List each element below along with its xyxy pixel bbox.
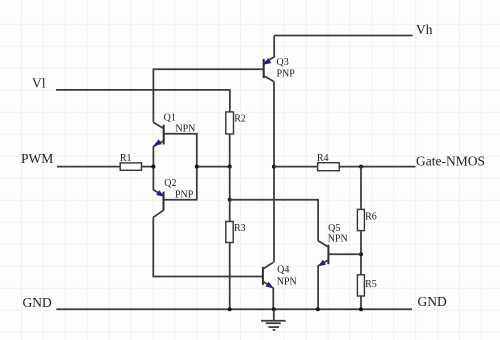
wire base junction to R2 node: [197, 166, 230, 168]
svg-text:PNP: PNP: [175, 190, 194, 201]
wire Q1 base to Q2 base: [164, 134, 197, 200]
wire R3 to ground rail: [229, 243, 231, 310]
wire Q3 collector to Q4 collector: [273, 82, 275, 263]
svg-text:Vh: Vh: [416, 22, 433, 37]
svg-text:Q5: Q5: [328, 223, 340, 234]
wire PWM input: [57, 166, 120, 168]
svg-text:Vl: Vl: [32, 76, 46, 91]
svg-text:R1: R1: [120, 153, 132, 164]
wire R1 to emitter junction: [142, 166, 154, 168]
wire R3 node to Q5 collector: [230, 200, 318, 241]
wire R3 top lead: [229, 200, 231, 222]
resistor R1: [120, 163, 141, 170]
resistor R5: [357, 275, 364, 296]
junction R2 bottom: [228, 165, 232, 169]
svg-text:GND: GND: [23, 295, 52, 310]
svg-text:Q1: Q1: [164, 112, 176, 123]
junction output node: [272, 165, 276, 169]
transistor Q2: [153, 167, 164, 218]
svg-text:R3: R3: [234, 223, 246, 234]
svg-text:NPN: NPN: [328, 234, 348, 245]
svg-text:Q4: Q4: [277, 264, 289, 275]
resistor R6: [357, 209, 364, 230]
ground symbol: [261, 309, 286, 330]
wire Vh rail: [274, 35, 412, 37]
svg-text:Gate-NMOS: Gate-NMOS: [416, 153, 485, 168]
svg-text:R5: R5: [365, 279, 377, 290]
wire R6 top lead: [360, 167, 362, 210]
transistor Q4: [263, 262, 274, 309]
wire R4 to Gate-NMOS: [339, 166, 415, 168]
svg-text:Q3: Q3: [277, 57, 289, 68]
wire ground rail: [56, 308, 412, 310]
wire R5 to ground rail: [360, 296, 362, 309]
svg-text:Q2: Q2: [164, 178, 176, 189]
junction Q4 emitter ground: [272, 307, 276, 311]
resistor R2: [226, 112, 234, 134]
svg-text:R4: R4: [317, 153, 329, 164]
transistor Q3: [263, 36, 274, 82]
wire R6 to R5: [360, 231, 362, 275]
wire Vl to R2: [56, 90, 230, 112]
wire output node to R4: [274, 166, 318, 168]
svg-text:GND: GND: [418, 294, 447, 309]
junction Q5 emitter ground: [316, 307, 320, 311]
junction R5 ground: [359, 307, 363, 311]
svg-text:PWM: PWM: [21, 151, 53, 166]
wire R2 to base rail: [229, 134, 231, 167]
svg-text:R6: R6: [365, 212, 377, 223]
wire Q2 collector to Q4 base: [153, 217, 263, 276]
resistor R3: [226, 222, 233, 243]
junction Q5 base node: [359, 252, 363, 256]
junction Q1 Q2 emitters: [151, 165, 155, 169]
wire Q5 base: [329, 253, 361, 255]
junction R3 top node: [228, 198, 232, 202]
junction R3 ground: [228, 307, 232, 311]
junction Q1 Q2 bases: [195, 165, 199, 169]
svg-text:PNP: PNP: [277, 69, 296, 80]
transistor Q1: [153, 122, 163, 166]
svg-text:R2: R2: [234, 113, 246, 124]
svg-text:NPN: NPN: [277, 276, 297, 287]
wire R2 node to R3 node: [229, 167, 231, 200]
junction R6 top: [359, 165, 363, 169]
wire Q1 collector to Q3 base: [153, 69, 263, 122]
resistor R4: [318, 163, 340, 171]
transistor Q5: [318, 241, 329, 309]
